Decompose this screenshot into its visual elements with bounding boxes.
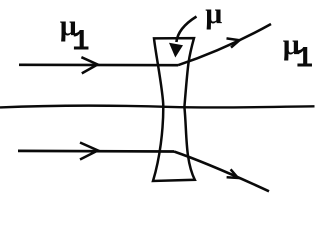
svg-text:μ: μ xyxy=(205,0,222,30)
svg-text:1: 1 xyxy=(295,43,313,77)
lower refracted ray arrowhead xyxy=(227,169,238,178)
lower incident ray xyxy=(18,150,174,153)
principal axis xyxy=(0,106,315,108)
upper incident ray arrowhead xyxy=(81,57,97,73)
upper incident ray xyxy=(19,63,178,66)
upper refracted ray arrowhead xyxy=(227,38,240,47)
concave lens outline xyxy=(153,38,195,181)
mu pointer curved arrow xyxy=(176,17,196,43)
lower incident ray arrowhead xyxy=(80,143,98,160)
upper refracted ray xyxy=(178,24,271,65)
mu pointer arrowhead (filled) xyxy=(169,43,183,58)
lower refracted ray xyxy=(174,152,269,192)
svg-text:1: 1 xyxy=(72,26,90,60)
